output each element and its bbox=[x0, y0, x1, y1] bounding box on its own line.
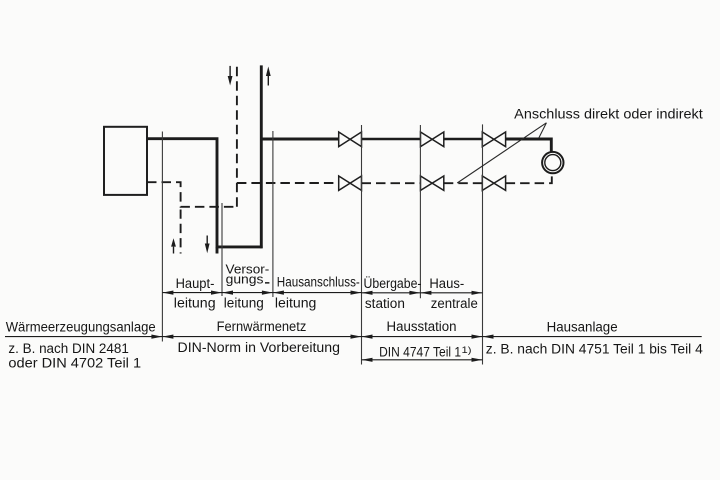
dimension line Uebergabestation span bbox=[362, 291, 421, 295]
dimension line bottom row (full width) bbox=[5, 335, 702, 339]
boundary line b (Versorgungsleitung left) bbox=[221, 203, 223, 296]
boundary line e (Hauszentrale left) bbox=[419, 125, 421, 298]
low hyphen of gungs- label bbox=[265, 282, 269, 284]
wire: return trunk vertical (dashed) bbox=[236, 65, 238, 206]
wire: return pipe from generator box (dashed) bbox=[147, 182, 237, 207]
svg-text:Haus-: Haus- bbox=[429, 276, 464, 291]
house connection circle (double ring) bbox=[542, 152, 563, 173]
svg-text:leitung: leitung bbox=[174, 296, 216, 311]
svg-text:z. B. nach DIN 4751 Teil 1 bis: z. B. nach DIN 4751 Teil 1 bis Teil 4 bbox=[486, 341, 703, 356]
wire: return segment valve V4 to valve V5 (dashed) bbox=[362, 182, 421, 184]
valve V4 (return line) bbox=[339, 176, 362, 190]
wire: supply segment valve V2 to valve V3 bbox=[444, 138, 483, 141]
dimension line Versorgungsleitung span bbox=[222, 291, 273, 295]
wire: supply branch to house, segment trunk to valve V1 bbox=[261, 138, 338, 141]
dimension line Hauszentrale span bbox=[420, 291, 482, 295]
flow arrow down (bottom, beside solid supply drop) bbox=[205, 236, 210, 254]
svg-text:Hausstation: Hausstation bbox=[387, 319, 457, 334]
flow arrow down (top, beside dashed return trunk) bbox=[228, 66, 233, 86]
wire: return main line continuation downward (dashed, cut off) bbox=[180, 210, 182, 254]
wire: return segment valve V5 to valve V6 (dashed) bbox=[444, 182, 483, 184]
wire: return branch from house, trunk to valve V4 (dashed) bbox=[237, 182, 339, 184]
svg-text:Wärmeerzeugungsanlage: Wärmeerzeugungsanlage bbox=[6, 320, 156, 335]
svg-text:station: station bbox=[365, 296, 405, 311]
wire: supply main line continuation downward (cut off) bbox=[216, 247, 219, 254]
valve V1 (supply line) bbox=[339, 132, 362, 147]
pointer line to return line (Anschluss label) bbox=[457, 123, 546, 183]
flow arrow up (top, beside solid supply trunk) bbox=[266, 67, 271, 86]
boundary line d (Uebergabestation left) bbox=[361, 125, 363, 365]
wire: supply segment valve V3 to house connection circle bbox=[506, 139, 552, 152]
svg-text:Fernwärmenetz: Fernwärmenetz bbox=[217, 319, 307, 334]
svg-text:zentrale: zentrale bbox=[431, 296, 478, 311]
svg-text:Hausanschluss-: Hausanschluss- bbox=[277, 275, 360, 290]
valve V6 (return line) bbox=[482, 176, 505, 190]
heat generator box (Waermeerzeuger) bbox=[104, 127, 147, 195]
svg-text:Hausanlage: Hausanlage bbox=[547, 319, 618, 334]
svg-text:leitung: leitung bbox=[275, 296, 317, 311]
boundary line a (Hauptleitung left) bbox=[161, 132, 163, 342]
valve V2 (supply line) bbox=[421, 132, 444, 147]
pointer line to supply line (Anschluss label) bbox=[539, 123, 547, 138]
svg-text:Haupt-: Haupt- bbox=[176, 276, 215, 291]
wire: return segment valve V6 to house connection circle (dashed) bbox=[506, 173, 552, 183]
svg-text:Übergabe-: Übergabe- bbox=[364, 276, 422, 291]
svg-text:gungs: gungs bbox=[226, 272, 264, 287]
svg-text:z. B. nach DIN 2481: z. B. nach DIN 2481 bbox=[8, 341, 128, 356]
boundary line c (Hausanschlussleitung left) bbox=[272, 131, 274, 297]
wire: supply pipe from generator box, down and to trunk bbox=[147, 139, 263, 247]
dimension line Hauptleitung span bbox=[162, 291, 222, 295]
flow arrow up (bottom, beside dashed return riser) bbox=[171, 238, 176, 253]
wire: supply trunk vertical (Versorgungsleitung, solid) bbox=[260, 65, 263, 248]
svg-text:DIN 4747 Teil 1: DIN 4747 Teil 1 bbox=[379, 344, 461, 359]
valve V3 (supply line) bbox=[482, 132, 505, 147]
dimension line DIN 4747 span bbox=[362, 358, 483, 362]
svg-text:1): 1) bbox=[462, 345, 472, 356]
svg-text:Anschluss direkt oder indirekt: Anschluss direkt oder indirekt bbox=[514, 107, 703, 122]
dimension line Hausanschlussleitung span bbox=[273, 291, 362, 295]
svg-text:oder DIN 4702 Teil 1: oder DIN 4702 Teil 1 bbox=[8, 356, 141, 371]
wire: supply segment valve V1 to valve V2 bbox=[362, 138, 421, 141]
svg-text:leitung: leitung bbox=[224, 295, 264, 310]
svg-text:DIN-Norm in Vorbereitung: DIN-Norm in Vorbereitung bbox=[178, 340, 341, 355]
valve V5 (return line) bbox=[421, 176, 444, 190]
boundary line f (Hauszentrale right) bbox=[482, 124, 484, 364]
